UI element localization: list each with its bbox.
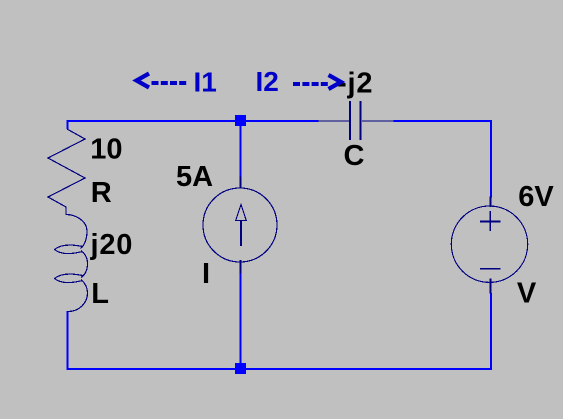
svg-text:C: C — [344, 140, 365, 172]
svg-text:V: V — [517, 278, 537, 310]
svg-text:j20: j20 — [90, 229, 134, 261]
svg-text:R: R — [91, 177, 112, 209]
svg-text:L: L — [91, 278, 109, 310]
svg-text:6V: 6V — [518, 181, 554, 213]
svg-text:10: 10 — [90, 134, 122, 166]
svg-text:5A: 5A — [176, 161, 213, 193]
svg-text:I2: I2 — [256, 66, 279, 97]
svg-text:I1: I1 — [194, 67, 217, 98]
svg-text:I: I — [202, 258, 210, 290]
